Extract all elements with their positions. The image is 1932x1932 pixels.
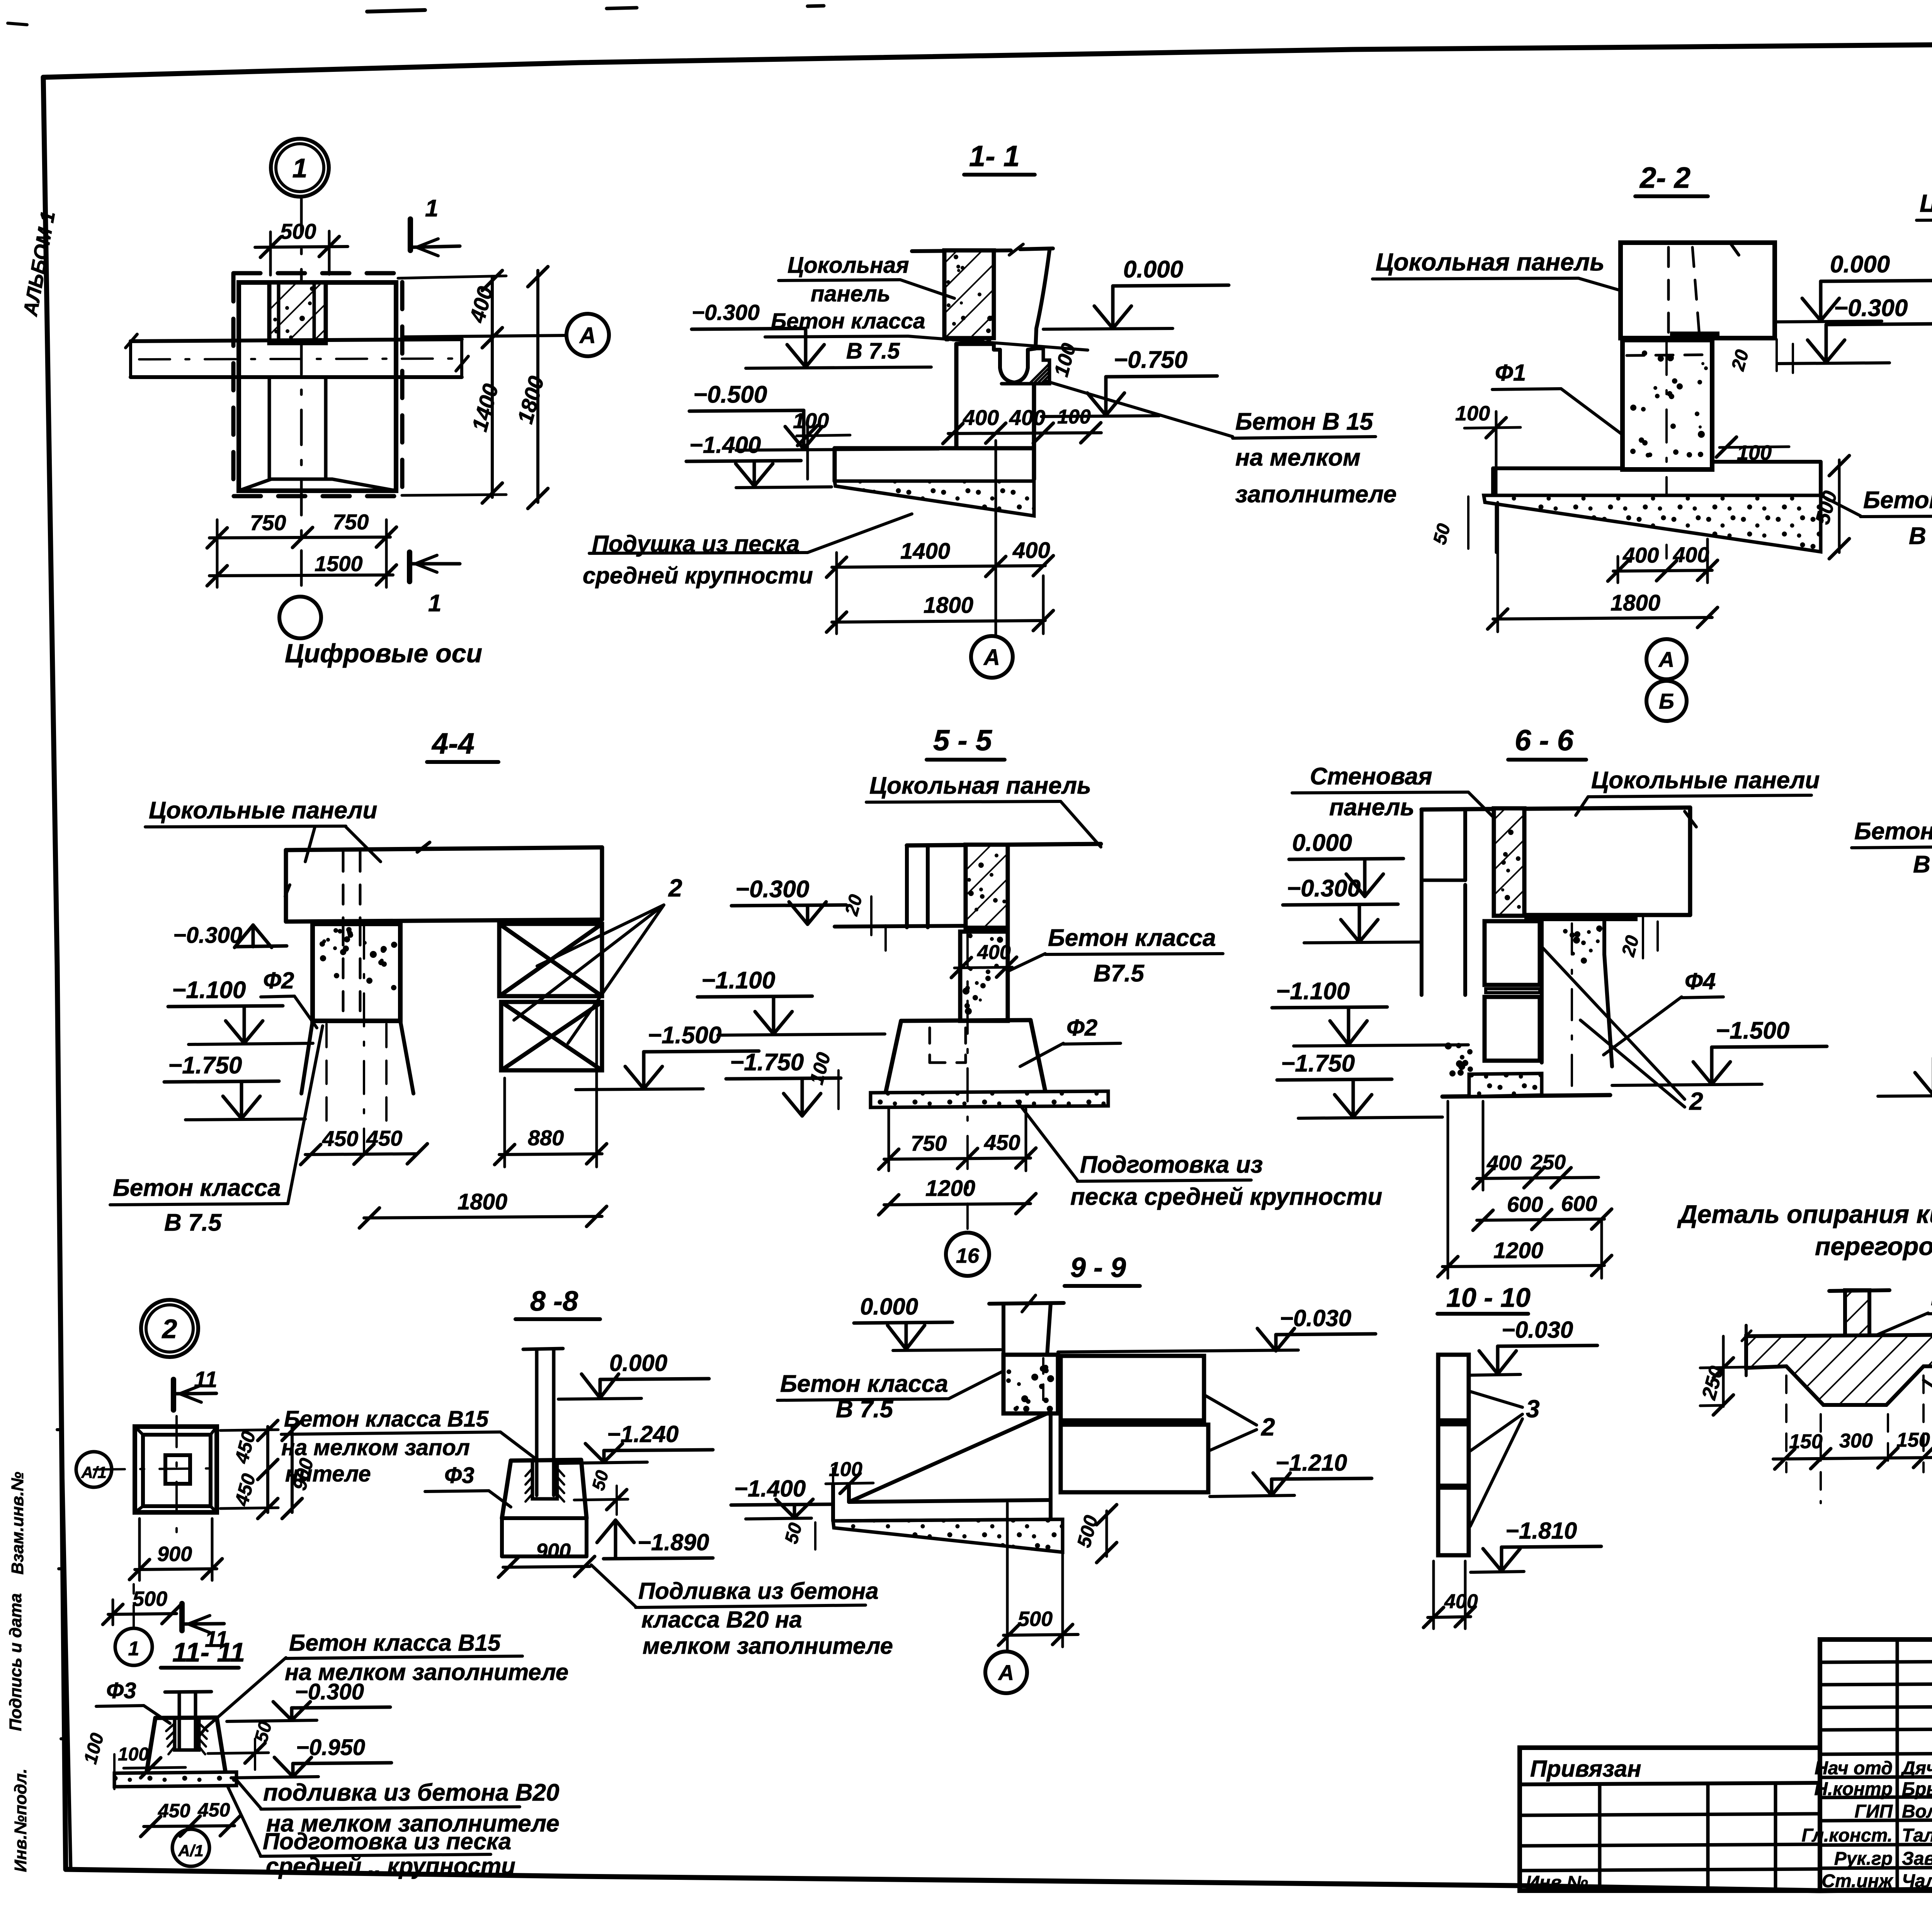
- svg-text:0.000: 0.000: [1292, 830, 1352, 856]
- svg-text:−1.100: −1.100: [1276, 978, 1350, 1005]
- svg-text:100: 100: [1057, 406, 1091, 428]
- 6-6 basement panel right: [1688, 808, 1692, 915]
- svg-text:на мелком: на мелком: [1235, 444, 1361, 471]
- axis circle A/1 (11-11): [172, 1829, 209, 1866]
- 1-1 footing slab: [835, 446, 1034, 451]
- detail floor slab hatched: [1746, 1335, 1932, 1405]
- svg-text:−1.750: −1.750: [1281, 1050, 1355, 1077]
- 1-1 centerline to circle A: [995, 440, 997, 636]
- 5-5 base strip: [871, 1091, 1108, 1107]
- 10-10 dim 400: [1428, 1617, 1471, 1617]
- dim 1500 below plan: [209, 575, 393, 576]
- svg-text:150: 150: [1789, 1430, 1823, 1453]
- svg-text:900: 900: [157, 1543, 192, 1566]
- svg-text:Б: Б: [1659, 689, 1674, 713]
- svg-text:1- 1: 1- 1: [969, 140, 1020, 173]
- svg-text:Подпись и дата: Подпись и дата: [6, 1593, 25, 1731]
- svg-text:0.000: 0.000: [860, 1294, 918, 1320]
- svg-text:100: 100: [793, 408, 829, 433]
- 5-5 concrete pillar: [960, 932, 1008, 1021]
- svg-text:В 7.5: В 7.5: [846, 338, 900, 364]
- section cut mark 1 top: [408, 219, 413, 250]
- svg-text:−1.240: −1.240: [607, 1421, 679, 1447]
- svg-text:В 7.5: В 7.5: [1913, 851, 1932, 878]
- svg-text:Ф2: Ф2: [263, 968, 294, 993]
- svg-text:11: 11: [194, 1367, 217, 1392]
- svg-text:В7.5: В7.5: [1094, 960, 1145, 987]
- svg-text:Цокольная панель: Цокольная панель: [869, 772, 1091, 799]
- axis circle 1 (plan 2): [115, 1628, 152, 1665]
- svg-text:2: 2: [162, 1314, 177, 1344]
- right dim 1800 vertical: [536, 270, 539, 502]
- svg-text:450: 450: [197, 1799, 230, 1821]
- dim 500 top: [255, 247, 348, 247]
- svg-text:2: 2: [1261, 1413, 1275, 1441]
- svg-text:средней крупности: средней крупности: [583, 563, 813, 588]
- svg-text:−1.100: −1.100: [701, 967, 775, 994]
- svg-text:Чаленко: Чаленко: [1902, 1871, 1932, 1891]
- svg-text:Ф3: Ф3: [444, 1463, 474, 1488]
- axis circles А Б (2-2): [1646, 639, 1687, 679]
- svg-text:1200: 1200: [1493, 1238, 1543, 1263]
- svg-text:Талько: Талько: [1902, 1825, 1932, 1846]
- svg-text:А/1: А/1: [178, 1842, 203, 1860]
- svg-text:заполнителе: заполнителе: [1235, 481, 1397, 508]
- svg-text:песка средней крупности: песка средней крупности: [1070, 1184, 1382, 1210]
- plan 1 inner solid rectangle: [239, 282, 396, 491]
- svg-text:2: 2: [1689, 1087, 1703, 1115]
- svg-text:400: 400: [1622, 543, 1659, 567]
- svg-text:Инв.№подл.: Инв.№подл.: [11, 1769, 30, 1872]
- 11-11 anchor bolt: [165, 1692, 211, 1692]
- svg-text:150: 150: [1896, 1429, 1930, 1451]
- 1-1 dim 1800 bottom: [832, 621, 1045, 622]
- svg-text:Завалий: Завалий: [1902, 1849, 1932, 1869]
- svg-text:880: 880: [528, 1126, 564, 1150]
- 9-9 wall stub: [989, 1303, 1064, 1304]
- svg-text:1: 1: [425, 195, 438, 222]
- plan 2 axes: [94, 1468, 220, 1469]
- svg-text:В 7.5: В 7.5: [836, 1396, 894, 1423]
- axis circle 1 (double): [271, 139, 329, 197]
- 9-9 centerline to circle A: [1006, 1503, 1009, 1650]
- svg-text:−0.300: −0.300: [1834, 295, 1908, 321]
- svg-text:6 - 6: 6 - 6: [1515, 724, 1574, 757]
- svg-text:8 -8: 8 -8: [530, 1286, 578, 1317]
- section cut mark 1 bottom: [407, 552, 412, 582]
- svg-text:0.000: 0.000: [609, 1350, 667, 1376]
- svg-text:Бетон В 15: Бетон В 15: [1235, 408, 1374, 435]
- 9-9 sand wedge: [833, 1519, 1063, 1552]
- 8-8 dim 900: [503, 1566, 590, 1567]
- 1-1 dims 400 400 100: [948, 433, 1101, 434]
- svg-text:−1.400: −1.400: [689, 432, 761, 458]
- svg-text:1500: 1500: [315, 551, 363, 576]
- 2-2 sand cushion: [1484, 495, 1821, 552]
- plan 1 horizontal wall band: [131, 339, 462, 341]
- 9-9 footing: [831, 1485, 835, 1521]
- svg-text:Рук.гр: Рук.гр: [1834, 1849, 1893, 1869]
- svg-text:Привязан: Привязан: [1530, 1756, 1641, 1782]
- svg-text:на мелком заполнителе: на мелком заполнителе: [285, 1659, 568, 1685]
- 10-10 block stack: [1438, 1355, 1469, 1420]
- svg-text:Деталь опирания кирпичной: Деталь опирания кирпичной: [1677, 1200, 1932, 1228]
- svg-text:средней .. крупности: средней .. крупности: [266, 1853, 515, 1879]
- axis circle 2 (double): [141, 1300, 198, 1357]
- 4-4 dim 880: [499, 1154, 602, 1155]
- svg-text:450: 450: [366, 1126, 402, 1150]
- 2-2 dims 400 400: [1613, 570, 1712, 571]
- axis line to circle A: [402, 335, 566, 337]
- svg-text:Бетон класса: Бетон класса: [1863, 487, 1932, 514]
- svg-text:600: 600: [1507, 1192, 1543, 1216]
- svg-text:10 - 10: 10 - 10: [1446, 1282, 1531, 1313]
- 5-5 footing flare: [901, 1020, 1031, 1021]
- plan 1 footing trapezoid lines: [271, 478, 332, 481]
- svg-text:−1.500: −1.500: [1716, 1017, 1789, 1044]
- svg-text:1: 1: [128, 1638, 139, 1660]
- 1-1 sand cushion wedge: [835, 481, 1034, 516]
- title block Привязан table: [1520, 1748, 1820, 1891]
- section cut mark 11 bottom: [179, 1604, 185, 1631]
- svg-text:9 - 9: 9 - 9: [1070, 1252, 1126, 1283]
- 8-8 pocket hatch: [532, 1461, 557, 1499]
- axis circle A (9-9): [985, 1651, 1027, 1693]
- 11-11 base strip: [114, 1772, 236, 1787]
- svg-text:−0.950: −0.950: [296, 1735, 365, 1760]
- plan 2 dim 500 bottom: [108, 1614, 177, 1614]
- 4-4 X blocks right: [499, 924, 602, 996]
- svg-text:750: 750: [333, 510, 369, 534]
- svg-text:−0.300: −0.300: [173, 923, 242, 948]
- svg-text:400: 400: [963, 405, 999, 430]
- svg-text:4-4: 4-4: [431, 727, 474, 760]
- svg-text:500: 500: [280, 219, 316, 243]
- svg-text:2- 2: 2- 2: [1639, 162, 1690, 194]
- plan 1 wall panel hatched strip: [269, 282, 326, 343]
- svg-text:0.000: 0.000: [1830, 251, 1890, 278]
- right dim 400/1400 vertical: [491, 277, 494, 497]
- svg-text:Ст.инж: Ст.инж: [1821, 1871, 1893, 1891]
- svg-text:400: 400: [1486, 1151, 1522, 1175]
- 5-5 wall elevation: [907, 844, 1101, 845]
- 6-6 left block stack: [1485, 921, 1540, 985]
- svg-text:Брызгалово: Брызгалово: [1902, 1779, 1932, 1799]
- svg-text:на мелком запол: на мелком запол: [281, 1435, 470, 1460]
- 6-6 dim 1200: [1442, 1265, 1604, 1267]
- 2-2 foundation pier: [1622, 340, 1712, 469]
- 4-4 dim 1800: [364, 1216, 602, 1218]
- svg-text:−1.750: −1.750: [730, 1049, 804, 1076]
- plan 2 square inner: [143, 1435, 211, 1506]
- svg-text:А: А: [1658, 647, 1674, 672]
- svg-text:Ф1: Ф1: [1495, 360, 1526, 386]
- svg-text:Ф2: Ф2: [1066, 1015, 1097, 1041]
- 9-9 pier: [1003, 1355, 1058, 1413]
- svg-text:мелком заполнителе: мелком заполнителе: [643, 1633, 893, 1659]
- svg-text:−0.030: −0.030: [1280, 1305, 1351, 1331]
- 1-1 foundation beam: [954, 344, 959, 448]
- svg-text:100: 100: [1455, 402, 1490, 425]
- 1-1 ledge line: [835, 480, 1034, 483]
- 1-1 dims 1400 400 bottom: [832, 566, 1045, 567]
- svg-text:Нач отд: Нач отд: [1815, 1758, 1893, 1779]
- svg-text:класса В20 на: класса В20 на: [641, 1607, 802, 1633]
- svg-text:−0.300: −0.300: [735, 876, 809, 903]
- svg-text:Инв.№: Инв.№: [1526, 1872, 1588, 1893]
- svg-text:750: 750: [911, 1131, 947, 1155]
- svg-text:Цокольные панели: Цокольные панели: [1920, 189, 1932, 217]
- 6-6 left wall: [1420, 810, 1423, 995]
- svg-text:В 7.5: В 7.5: [164, 1209, 222, 1236]
- svg-text:450: 450: [158, 1800, 190, 1821]
- 4-4 panels elevation: [286, 847, 602, 850]
- svg-text:250: 250: [1531, 1151, 1566, 1174]
- svg-text:Гл.конст.: Гл.конст.: [1801, 1825, 1893, 1846]
- svg-text:Н.контр: Н.контр: [1814, 1779, 1893, 1799]
- svg-text:А: А: [983, 645, 1000, 670]
- svg-text:300: 300: [1839, 1430, 1873, 1452]
- svg-text:450: 450: [984, 1130, 1020, 1155]
- svg-text:500: 500: [1018, 1607, 1053, 1631]
- svg-text:Володина: Володина: [1902, 1801, 1932, 1822]
- detail slab edge ticks: [1745, 1325, 1748, 1376]
- svg-text:Бетон класса В15: Бетон класса В15: [284, 1406, 489, 1432]
- plan 2 dim 900 rotated: [291, 1427, 294, 1512]
- svg-text:400: 400: [1444, 1590, 1478, 1613]
- svg-text:1: 1: [428, 590, 441, 617]
- svg-text:−1.890: −1.890: [638, 1529, 709, 1555]
- svg-text:Цифровые оси: Цифровые оси: [285, 639, 482, 668]
- svg-text:ГИП: ГИП: [1854, 1801, 1893, 1822]
- svg-text:−0.300: −0.300: [1287, 875, 1361, 902]
- plan 1 inner verticals below band: [268, 377, 271, 479]
- 2-2 pier centerline: [1665, 342, 1668, 558]
- svg-text:Бетон класса: Бетон класса: [780, 1371, 948, 1397]
- svg-text:панель: панель: [811, 281, 890, 306]
- 8-8 column: [523, 1349, 563, 1349]
- 1-1 concrete trough (Бетон В15): [1036, 250, 1049, 349]
- 11-11 dims 450 450: [144, 1826, 235, 1827]
- 5-5 hidden pocket dashed: [929, 1028, 931, 1063]
- detail bottom dims 150 300 150: [1773, 1458, 1932, 1459]
- left column boxes (Инв.№подл / Подпись и дата / Взам.инв.№): [62, 1430, 71, 1869]
- 5-5 centerline: [966, 933, 969, 1229]
- svg-text:−0.500: −0.500: [693, 381, 767, 408]
- svg-text:−1.400: −1.400: [734, 1476, 806, 1502]
- 2-2 basement panel elevation: [1621, 243, 1775, 338]
- svg-text:Бетон класса В15: Бетон класса В15: [289, 1630, 501, 1656]
- 6-6 pier: [1540, 921, 1544, 1063]
- svg-text:−0.300: −0.300: [692, 300, 760, 325]
- 6-6 dims 600 600: [1477, 1219, 1604, 1220]
- svg-text:Цокольная панель: Цокольная панель: [1376, 248, 1604, 276]
- 5-5 floor line left: [835, 926, 966, 927]
- svg-text:нителе: нителе: [285, 1461, 371, 1486]
- svg-text:А: А: [579, 323, 596, 348]
- dim 750 750 below plan: [209, 537, 390, 538]
- svg-text:Дячук: Дячук: [1900, 1758, 1932, 1779]
- 6-6 footing bottom: [1442, 1095, 1610, 1097]
- plan 2 dim 900 bottom: [135, 1569, 217, 1570]
- top edge artifacts: [367, 10, 425, 12]
- svg-text:1: 1: [293, 153, 308, 183]
- svg-text:Взам.инв.№: Взам.инв.№: [8, 1472, 27, 1575]
- svg-text:400: 400: [1673, 543, 1709, 567]
- svg-text:Ф4: Ф4: [1685, 968, 1716, 994]
- svg-text:Ф3: Ф3: [106, 1678, 136, 1703]
- svg-text:Подготовка из песка: Подготовка из песка: [263, 1828, 511, 1854]
- svg-text:750: 750: [250, 510, 286, 535]
- svg-text:подливка из бетона В20: подливка из бетона В20: [263, 1779, 560, 1806]
- 4-4 dims 450 450: [305, 1154, 417, 1155]
- svg-text:Стеновая: Стеновая: [1310, 763, 1432, 790]
- svg-text:−1.500: −1.500: [648, 1022, 721, 1049]
- page border frame: [43, 43, 1932, 77]
- 1-1 floor line: [912, 250, 1011, 251]
- svg-text:1800: 1800: [1611, 590, 1660, 616]
- svg-text:600: 600: [1561, 1191, 1597, 1216]
- 5-5 dim 1200: [884, 1204, 1031, 1205]
- svg-text:11- 11: 11- 11: [172, 1637, 245, 1667]
- plan 1 outer dashed rectangle: [233, 273, 402, 496]
- svg-text:Бетон класса: Бетон класса: [113, 1175, 281, 1201]
- 9-9 blocks right: [1061, 1356, 1204, 1420]
- 8-8 footing: [511, 1460, 581, 1461]
- axis circle bottom (unlabeled): [279, 597, 321, 638]
- svg-text:500: 500: [133, 1587, 167, 1611]
- plan 1 centerline vertical: [300, 199, 303, 597]
- svg-text:400: 400: [977, 941, 1011, 964]
- 1-1 trough hatch wedge: [1029, 364, 1049, 384]
- svg-text:Подготовка из: Подготовка из: [1080, 1151, 1263, 1178]
- svg-text:Цокольная: Цокольная: [787, 253, 909, 278]
- svg-text:3: 3: [1526, 1395, 1540, 1423]
- axis circle A plan: [566, 314, 609, 356]
- 1-1 basement panel hatched: [944, 250, 994, 338]
- svg-text:1800: 1800: [457, 1189, 507, 1214]
- svg-text:5 - 5: 5 - 5: [933, 724, 993, 757]
- svg-text:Цокольные панели: Цокольные панели: [1591, 767, 1820, 794]
- svg-text:450: 450: [322, 1126, 358, 1151]
- axis circle A (1-1): [971, 636, 1013, 678]
- 2-2 footing ledges: [1493, 466, 1622, 470]
- svg-text:панель: панель: [1329, 794, 1414, 821]
- 5-5 dims 750 450: [884, 1158, 1031, 1159]
- svg-text:2: 2: [668, 874, 682, 902]
- svg-text:16: 16: [956, 1244, 980, 1267]
- plan 2 anchor square: [165, 1455, 190, 1484]
- svg-text:100: 100: [118, 1744, 149, 1765]
- svg-text:А: А: [998, 1660, 1014, 1685]
- svg-text:−1.210: −1.210: [1276, 1450, 1347, 1476]
- 9-9 dim 500 bottom: [1003, 1634, 1078, 1635]
- 6-6 dims 400 250: [1477, 1177, 1599, 1179]
- plan 2 square outer: [135, 1427, 217, 1512]
- svg-text:900: 900: [536, 1539, 571, 1563]
- svg-text:−1.100: −1.100: [172, 977, 246, 1003]
- 11-11 pocket hatched walls: [175, 1718, 199, 1750]
- svg-text:А/1: А/1: [81, 1463, 106, 1481]
- svg-text:перегородки: перегородки: [1815, 1232, 1932, 1260]
- axis circle 16 (5-5): [946, 1233, 989, 1276]
- svg-text:0.000: 0.000: [1123, 256, 1183, 283]
- svg-text:1800: 1800: [923, 593, 973, 618]
- 5-5 basement panel hatched: [966, 845, 1008, 928]
- svg-text:100: 100: [1737, 441, 1772, 464]
- svg-text:Подливка из бетона: Подливка из бетона: [638, 1578, 879, 1604]
- svg-text:−0.750: −0.750: [1114, 347, 1187, 373]
- svg-text:Цокольные панели: Цокольные панели: [149, 797, 377, 824]
- svg-text:В 7.5: В 7.5: [1909, 523, 1932, 549]
- 6-6 hatched wall panel: [1494, 808, 1524, 916]
- 2-2 dim 1800: [1493, 617, 1712, 619]
- svg-text:Бетон класса: Бетон класса: [771, 309, 925, 333]
- axis circle A/1 (plan 2): [76, 1452, 112, 1487]
- svg-text:−0.030: −0.030: [1502, 1317, 1573, 1343]
- svg-text:−1.810: −1.810: [1505, 1518, 1577, 1544]
- svg-text:−1.750: −1.750: [168, 1052, 242, 1079]
- 4-4 centerline: [363, 926, 365, 1155]
- svg-text:Бетон класса: Бетон класса: [1048, 925, 1216, 951]
- 4-4 pier lower taper: [313, 1019, 400, 1023]
- title block signature table: [1820, 1639, 1932, 1891]
- svg-text:400: 400: [1012, 538, 1050, 563]
- svg-text:400: 400: [1009, 405, 1045, 430]
- plan 2 dims 450 450 rotated: [266, 1427, 269, 1512]
- section cut mark 11 top: [171, 1379, 176, 1410]
- 6-6 wall top line: [1422, 808, 1690, 810]
- 11-11 footing: [155, 1718, 217, 1718]
- 4-4 foundation pier: [313, 924, 400, 1021]
- plan 1 band centerline: [139, 359, 452, 359]
- svg-text:1400: 1400: [900, 539, 950, 564]
- detail brick stub hatched: [1845, 1290, 1869, 1336]
- svg-text:Бетон класса: Бетон класса: [1854, 818, 1932, 845]
